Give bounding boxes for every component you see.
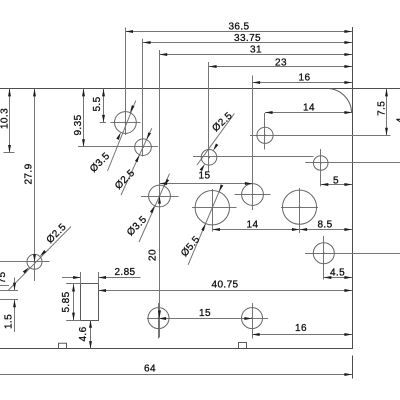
svg-text:Ø2.5: Ø2.5 [45,222,69,246]
svg-text:33.75: 33.75 [234,33,261,44]
svg-text:75: 75 [0,272,8,284]
svg-text:2.85: 2.85 [114,267,135,278]
svg-text:23: 23 [275,58,287,69]
svg-text:4: 4 [396,117,400,123]
svg-text:40.75: 40.75 [211,280,238,291]
svg-text:4.6: 4.6 [78,326,89,341]
svg-text:16: 16 [299,72,311,83]
svg-text:36.5: 36.5 [228,22,249,33]
svg-text:9.35: 9.35 [73,114,84,135]
svg-text:5.85: 5.85 [61,291,72,312]
svg-text:16: 16 [295,323,307,334]
svg-text:64: 64 [144,364,156,375]
svg-text:27.9: 27.9 [24,163,35,184]
svg-text:4.5: 4.5 [330,267,345,278]
svg-text:8.5: 8.5 [317,220,332,231]
svg-text:10.3: 10.3 [0,108,10,129]
svg-text:Ø3.5: Ø3.5 [88,151,112,175]
svg-text:1.5: 1.5 [4,314,15,329]
svg-text:15: 15 [199,171,211,182]
svg-text:14: 14 [247,220,259,231]
svg-text:20: 20 [148,249,159,261]
svg-text:5.5: 5.5 [92,96,103,111]
svg-text:Ø2.5: Ø2.5 [113,168,137,192]
svg-text:15: 15 [199,308,211,319]
svg-text:7.5: 7.5 [377,101,388,116]
svg-text:5: 5 [333,175,339,186]
svg-text:31: 31 [250,45,262,56]
svg-text:14: 14 [303,103,315,114]
svg-text:Ø2.5: Ø2.5 [210,110,235,134]
